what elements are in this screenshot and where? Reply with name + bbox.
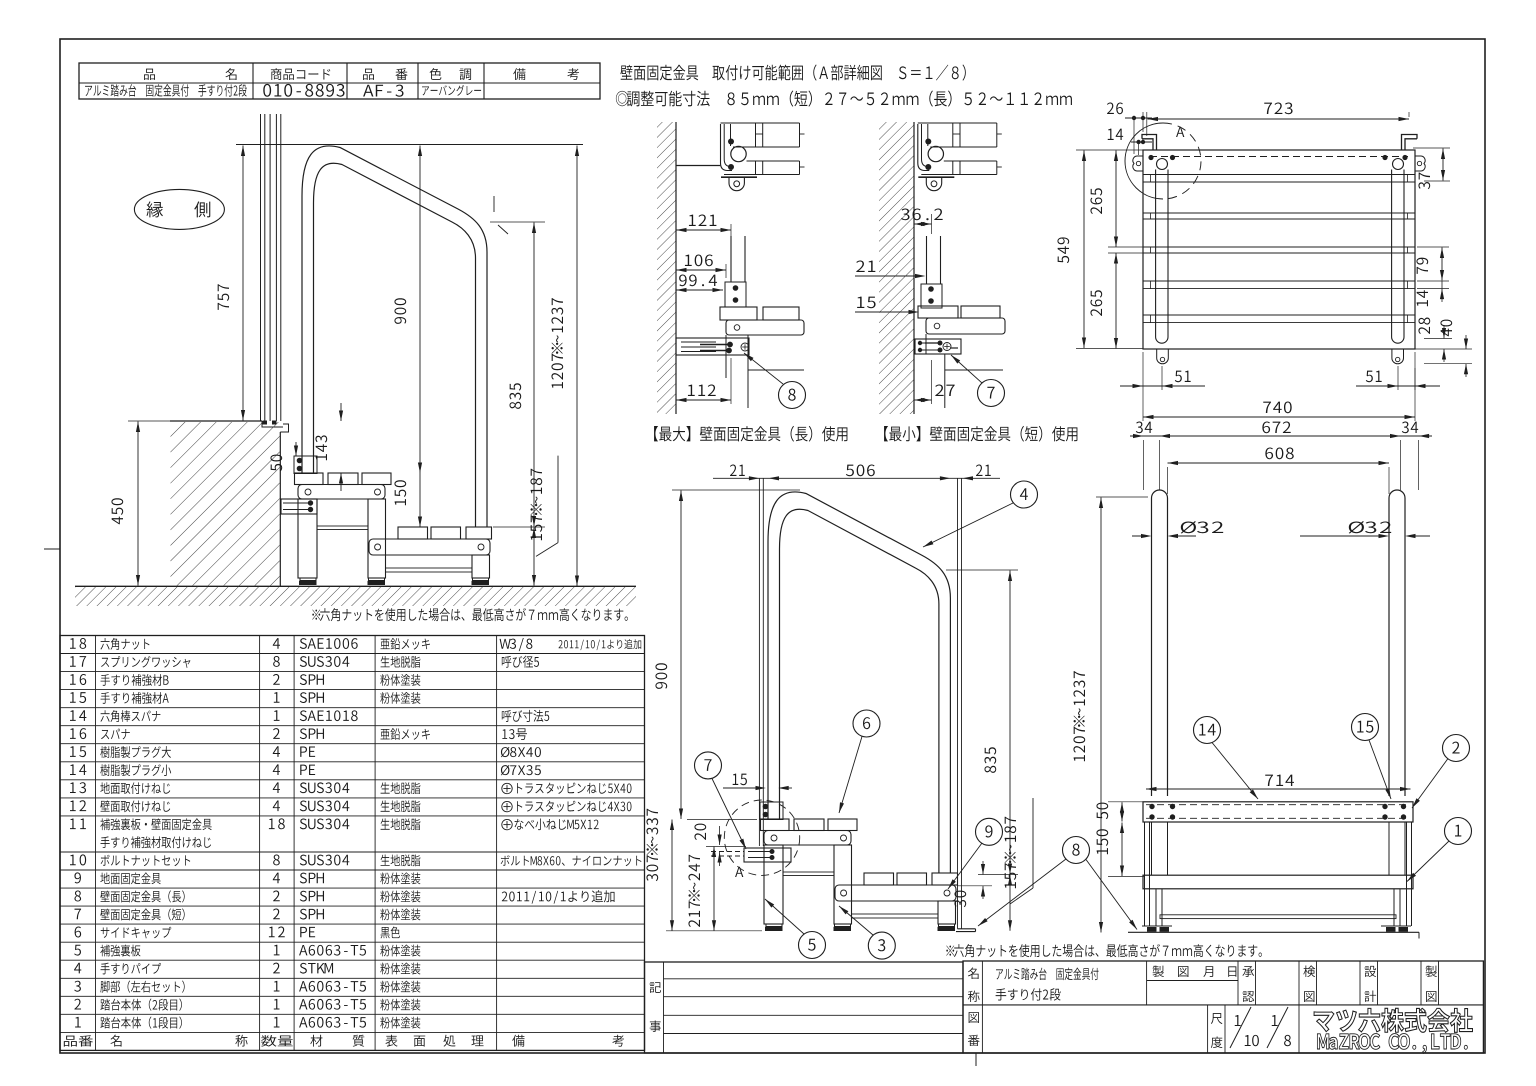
detail MIN: wall hatch	[879, 122, 914, 414]
title line 1	[620, 64, 965, 80]
pipe clamp	[294, 456, 317, 474]
bottom middle view wall lines left	[758, 478, 760, 846]
detail MAX dims	[676, 229, 731, 231]
balloon 8 shared	[1063, 837, 1090, 864]
title block name/number	[963, 961, 1483, 1053]
left view: porch top and sill	[170, 420, 262, 422]
handrail pipe	[768, 492, 950, 873]
plan view feet	[1157, 349, 1169, 364]
detail MAX: wall hatch	[657, 122, 676, 414]
front view balloons	[1194, 717, 1221, 744]
dim 157 bottom view	[1009, 875, 1011, 931]
dim 15	[723, 787, 764, 789]
front view ground	[1128, 931, 1419, 933]
step stool 2nd body	[369, 539, 490, 555]
left view: porch posts	[260, 114, 262, 421]
detail circle A	[724, 800, 799, 875]
detail MAX: long wall bracket	[676, 338, 749, 355]
detail MIN: plan bracket	[918, 124, 930, 171]
detail MIN: wall line	[913, 122, 915, 414]
dim 900 bottom view	[672, 489, 800, 491]
dim 28	[1424, 338, 1452, 340]
front view pipes lower part	[1151, 822, 1153, 875]
step stool crossbar lower	[852, 914, 939, 918]
detail MAX: slats and body	[720, 307, 757, 320]
step stool feet	[766, 924, 782, 927]
bottom middle wall bracket A-part	[744, 848, 791, 862]
product info table	[79, 63, 600, 99]
frame center tick bottom	[975, 1053, 977, 1066]
dim 21 506 21	[713, 477, 1000, 479]
detail MIN: pipe and clamp	[926, 236, 928, 284]
front view dim 50	[1108, 801, 1145, 803]
left view: ground line	[75, 585, 636, 587]
front view dim 34 672 34	[1130, 435, 1432, 437]
balloon 8 detail	[779, 382, 806, 409]
plan view hidden top bar	[1150, 156, 1408, 158]
step stool feet	[300, 578, 316, 581]
pipe clamp	[760, 802, 783, 820]
left view: engawa oval label	[134, 189, 224, 229]
front view bottom rail	[1160, 915, 1396, 919]
extension line second step	[978, 874, 1018, 876]
frame center tick left	[44, 548, 60, 550]
detail MAX: plan bracket	[676, 165, 720, 167]
left view wall bracket	[281, 499, 317, 514]
detail MAX: pipe and clamp	[730, 236, 732, 282]
dim 1207	[576, 146, 578, 587]
dim 549	[1076, 149, 1143, 151]
balloon 5	[799, 932, 826, 959]
title line 2	[616, 90, 1072, 106]
plan view main outline	[1143, 150, 1415, 349]
dim 900	[419, 146, 421, 474]
dim 740	[1142, 390, 1144, 421]
step stool 2nd slats	[864, 873, 894, 885]
front view feet	[1142, 925, 1172, 927]
step stool top slats	[295, 473, 324, 485]
caption MAX	[654, 426, 847, 442]
front view platform top bar	[1143, 802, 1413, 822]
balloon 9	[976, 818, 1003, 845]
dim 143	[340, 403, 342, 421]
front view dim 1207	[1096, 496, 1148, 498]
front view dim 608	[1168, 462, 1390, 464]
plan view corner brackets	[1142, 135, 1157, 151]
plan view slat lines	[1143, 174, 1415, 176]
MAZROC logo	[1314, 1008, 1472, 1032]
step stool top body	[298, 485, 385, 500]
dim 217	[713, 847, 715, 931]
front view dim 714	[1146, 788, 1411, 790]
front view dim 150	[1121, 823, 1123, 877]
detail MAX: wall line	[675, 122, 677, 414]
front view legs	[1144, 822, 1146, 926]
front view legs below rail	[1155, 889, 1157, 926]
dim 30	[982, 861, 984, 875]
balloon 3	[868, 932, 895, 959]
detail MIN: slats and body	[918, 306, 958, 318]
step stool 2nd slats	[398, 527, 428, 539]
left view dimensions	[236, 144, 583, 146]
bottom middle view wall lines right	[957, 478, 959, 929]
left view: porch wall face	[279, 432, 281, 586]
handrail pipe	[302, 146, 487, 527]
dim 20	[719, 826, 721, 845]
dim 307	[671, 820, 673, 931]
front view pipes	[1152, 490, 1168, 796]
step stool crossbar upper	[783, 872, 834, 876]
ground wall bracket	[958, 928, 976, 930]
detail MIN: short wall bracket	[915, 339, 961, 354]
dim 157	[493, 526, 545, 528]
dim 450	[128, 420, 170, 422]
step stool crossbar lower	[386, 568, 473, 572]
dims 51	[1161, 366, 1163, 390]
dim 835	[490, 221, 545, 223]
front view dia 32 labels	[1181, 521, 1223, 533]
left view: porch hatch	[171, 422, 280, 586]
parts list table	[60, 636, 645, 1051]
pipe end ticks	[493, 196, 495, 212]
balloon 7 detail	[978, 380, 1005, 407]
title block 尺度 scale	[1207, 1005, 1209, 1053]
step stool top slats	[761, 819, 790, 831]
note under left view	[312, 608, 628, 621]
dim 40	[1415, 348, 1472, 350]
step stool legs upper	[298, 499, 317, 578]
dim 14 plan	[1131, 141, 1152, 143]
front view lower rail	[1143, 875, 1413, 889]
plan view pipe sections	[1157, 159, 1168, 170]
step stool legs upper	[764, 845, 783, 924]
title block 記事 area	[645, 962, 964, 1053]
dim 723	[1148, 118, 1410, 120]
balloon 6	[853, 710, 880, 737]
dim 50	[295, 442, 297, 456]
title block approval columns	[1237, 961, 1239, 1005]
dim 150	[419, 473, 421, 527]
dim 14 right	[1417, 288, 1449, 290]
plan view ears	[1133, 156, 1143, 171]
balloon 7	[695, 752, 722, 779]
step stool top body	[764, 831, 851, 846]
step stool leg lower	[472, 555, 490, 578]
dims 265 x2	[1108, 246, 1143, 248]
detail circle A dashed	[1125, 123, 1163, 199]
dim 37	[1413, 147, 1450, 149]
left view: ground hatch	[75, 587, 636, 606]
step stool leg lower	[938, 901, 956, 924]
dim 26	[1125, 117, 1152, 119]
dim 79	[1417, 246, 1449, 248]
step stool 2nd body	[835, 885, 956, 901]
balloon 4	[1011, 481, 1038, 508]
dim 835 bottom view	[946, 569, 1018, 571]
note under middle bottom view	[946, 944, 1262, 957]
step stool crossbar upper	[317, 526, 368, 530]
plan view pipes	[1155, 170, 1157, 338]
detail MIN dims	[914, 223, 932, 225]
dim 757	[242, 146, 244, 421]
title block 製図月日	[1146, 961, 1148, 1005]
caption MIN	[884, 426, 1077, 442]
